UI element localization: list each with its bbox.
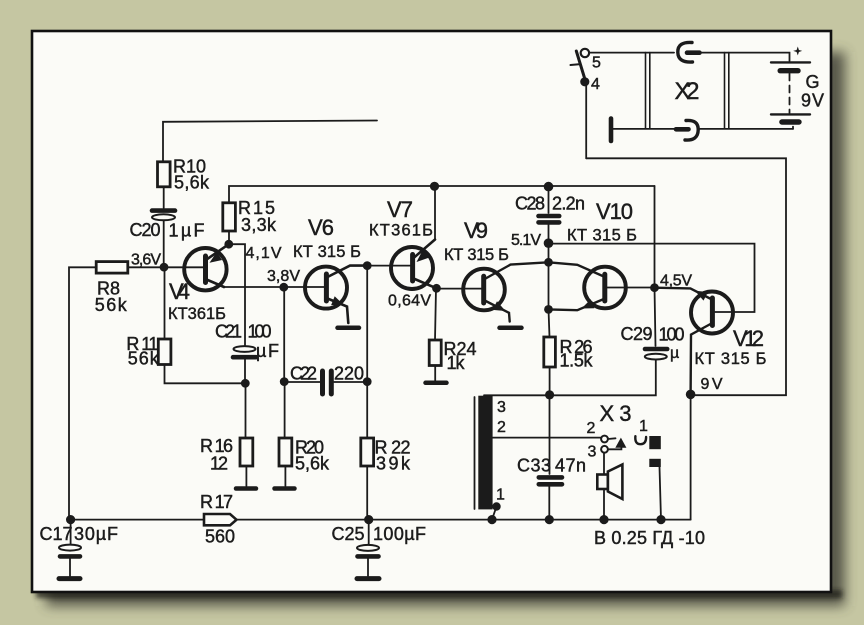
- wire node to R26: [549, 309, 550, 337]
- battery G cell 2 short plate: [782, 119, 799, 124]
- label R8: [95, 279, 128, 316]
- label R10: [173, 157, 210, 193]
- svg-text:56k: 56k: [95, 295, 128, 315]
- svg-text:4,5V: 4,5V: [660, 273, 692, 290]
- label C17: [40, 524, 119, 544]
- wire input from left edge: [69, 267, 96, 519]
- node rail V7: [430, 182, 439, 191]
- svg-text:V7: V7: [387, 197, 413, 222]
- wire X2 bottom link: [613, 128, 793, 130]
- X3 fixed contact hook: [635, 436, 646, 444]
- label switch pin4: [591, 76, 600, 93]
- svg-text:В 0.25 ГД -10: В 0.25 ГД -10: [594, 528, 705, 548]
- wire plug to bus: [660, 467, 662, 520]
- svg-text:G: G: [806, 72, 820, 92]
- wire C20 to node: [163, 220, 165, 267]
- label R20: [295, 438, 330, 474]
- svg-text:C22: C22: [290, 364, 317, 384]
- svg-text:5,6k: 5,6k: [295, 454, 330, 474]
- svg-text:V10: V10: [596, 199, 633, 224]
- speaker B: [597, 465, 622, 500]
- label G 9V: [801, 72, 824, 111]
- label speaker B: [594, 528, 705, 548]
- resistor R24: [429, 340, 441, 366]
- label X3: [600, 401, 632, 426]
- capacitor C28: [539, 216, 560, 222]
- svg-text:3,8V: 3,8V: [267, 268, 300, 285]
- wire R26 to 395 node: [549, 367, 551, 395]
- X3 pin 3 contact: [601, 446, 608, 453]
- resistor R15: [223, 203, 236, 231]
- label switch pin5: [592, 55, 601, 72]
- label R17: [200, 492, 235, 547]
- label V10: [567, 199, 637, 245]
- ground R24: [426, 381, 447, 386]
- wire R15 column: [228, 231, 230, 244]
- battery G cell 1 long plate: [771, 61, 810, 63]
- capacitor C29: [645, 349, 667, 360]
- label C33: [517, 456, 586, 476]
- node 4.5V: [650, 283, 659, 292]
- label C21: [215, 322, 279, 362]
- X3 movable contact triangle: [615, 438, 626, 448]
- label transformer pin2: [497, 419, 506, 436]
- ground bus: [71, 519, 691, 521]
- X2 connector pins left pair: [646, 53, 650, 129]
- transistor V7: [391, 240, 437, 290]
- wire contact5 to battery plus: [589, 53, 789, 61]
- wire 4.5V node to V12 emitter: [655, 288, 711, 299]
- wire V6 collector node down to C22 right node: [366, 266, 368, 382]
- label X2: [675, 78, 700, 105]
- svg-text:220: 220: [334, 364, 364, 384]
- svg-text:КТ 315 Б: КТ 315 Б: [444, 246, 509, 264]
- ground V9: [500, 326, 522, 331]
- svg-text:1µF: 1µF: [169, 221, 205, 241]
- svg-text:X 2: X 2: [675, 78, 700, 105]
- switch S lever: [571, 51, 586, 80]
- wire pin3 to movable contact: [608, 448, 621, 450]
- node V10 emitter: [544, 305, 553, 314]
- svg-text:12: 12: [210, 454, 228, 474]
- svg-text:1: 1: [496, 487, 505, 504]
- svg-text:2: 2: [497, 419, 506, 436]
- capacitor C33: [539, 477, 562, 484]
- wire tap1 to bus: [492, 507, 497, 520]
- node V7 collector: [432, 284, 441, 293]
- svg-text:µF: µF: [256, 341, 279, 361]
- transistor V9: [463, 262, 548, 321]
- wire C28 to 5.1V node: [548, 225, 550, 244]
- svg-text:4,1V: 4,1V: [246, 245, 282, 262]
- svg-text:56k: 56k: [128, 349, 160, 369]
- ground V6: [338, 326, 360, 331]
- wire R24 to ground: [434, 366, 436, 381]
- svg-text:9V: 9V: [801, 91, 824, 111]
- node V4 collector / R15: [224, 240, 233, 249]
- wire C28 rail tap: [548, 186, 550, 213]
- X2 top socket hook: [678, 42, 700, 62]
- node bus transformer: [487, 515, 496, 524]
- wire R11 bottom to C21 node: [165, 365, 246, 384]
- label V6: [293, 215, 361, 261]
- svg-text:КТ 315 Б: КТ 315 Б: [567, 227, 637, 245]
- label 9V: [701, 376, 723, 393]
- capacitor C17: [59, 520, 81, 579]
- wire R26 node down to C33: [549, 395, 551, 474]
- wire R8 to V4 base: [128, 266, 203, 268]
- svg-text:R 17: R 17: [200, 492, 233, 512]
- wire 5.1V to V12 base: [549, 244, 755, 312]
- node 395 rail R26: [545, 390, 554, 399]
- resistor R16: [240, 438, 253, 466]
- svg-text:C29: C29: [621, 324, 653, 344]
- wire 9V node to battery riser: [586, 158, 786, 395]
- label 0.64V: [388, 293, 431, 310]
- svg-text:C28: C28: [515, 194, 545, 214]
- node bus speaker: [599, 515, 608, 524]
- svg-text:C25: C25: [332, 524, 365, 544]
- node 9V: [686, 390, 696, 400]
- wire C22 left node to R20: [284, 382, 286, 438]
- svg-text:5: 5: [592, 55, 601, 72]
- svg-text:КТ 315 Б: КТ 315 Б: [293, 243, 361, 261]
- label C28: [515, 194, 585, 214]
- label 5.1V: [511, 232, 541, 249]
- svg-text:1: 1: [639, 418, 648, 435]
- node 5.1V: [544, 238, 554, 248]
- resistor R26: [544, 337, 556, 367]
- wire C29 to 395 rail: [484, 360, 656, 396]
- switch S contact 4: [580, 77, 589, 86]
- capacitor C25: [357, 520, 379, 579]
- svg-text:100: 100: [248, 322, 272, 342]
- node V9-V10 collector: [544, 258, 553, 267]
- wire V7 collector to V9 base: [437, 288, 483, 290]
- wire contact4 down: [585, 86, 587, 159]
- capacitor C22: [284, 371, 367, 394]
- label R16: [200, 436, 233, 474]
- wire R20 to ground: [284, 466, 286, 486]
- svg-text:3: 3: [588, 444, 597, 461]
- node bus C25: [364, 515, 373, 524]
- transformer T core: [474, 397, 476, 509]
- resistor R22: [361, 438, 374, 466]
- node V4-V6 wire: [279, 283, 288, 292]
- wire 9V node down to bus: [690, 394, 692, 519]
- wire top-left feedback: [163, 121, 377, 163]
- resistor R10: [158, 162, 171, 187]
- node C22 left: [280, 377, 289, 386]
- transistor V4: [184, 244, 229, 290]
- svg-text:560: 560: [205, 527, 235, 547]
- svg-text:µ: µ: [670, 345, 679, 362]
- wire V4 emitter to V6 base: [224, 286, 325, 288]
- X3 plug symbol: [649, 436, 661, 467]
- battery G cell 1 short plate: [780, 68, 798, 73]
- svg-text:47n: 47n: [555, 456, 586, 476]
- svg-text:4: 4: [591, 76, 600, 93]
- svg-text:1.5k: 1.5k: [560, 351, 594, 371]
- svg-text:КТ 315 Б: КТ 315 Б: [695, 350, 767, 368]
- svg-text:39k: 39k: [376, 454, 411, 474]
- label 3.6V: [131, 252, 161, 269]
- capacitor C21: [233, 346, 256, 357]
- wire node to C21 column: [229, 244, 245, 346]
- svg-text:5,6k: 5,6k: [174, 173, 210, 193]
- battery G dashed link: [789, 74, 791, 114]
- svg-text:C17: C17: [40, 524, 73, 544]
- wire node down to C22 left node: [283, 287, 285, 381]
- X2 bottom-left pin bar: [609, 119, 614, 142]
- node rail C28: [544, 182, 554, 192]
- battery G cell 2 long plate: [771, 113, 810, 115]
- label X3 pin2: [587, 420, 596, 437]
- wire battery minus down: [792, 127, 794, 129]
- node 3.6V: [160, 263, 169, 272]
- wire V6 node to V7 base: [367, 265, 410, 267]
- wire C22 right node to R22: [366, 382, 368, 438]
- node V6 collector: [363, 261, 372, 270]
- label C25: [332, 524, 427, 544]
- label R22: [375, 438, 412, 474]
- node bus C33: [545, 515, 554, 524]
- wire C21 to node: [244, 358, 246, 384]
- wire V7 emitter up to rail: [434, 186, 436, 240]
- label C29: [621, 324, 685, 362]
- wire C33 to bus: [548, 487, 550, 520]
- svg-text:5.1V: 5.1V: [511, 232, 541, 249]
- svg-text:V4: V4: [169, 279, 190, 304]
- label transformer pin3: [497, 399, 506, 416]
- svg-text:КТ361Б: КТ361Б: [168, 305, 226, 323]
- node bus plug: [656, 515, 665, 524]
- node C22 right: [363, 377, 372, 386]
- transistor V12 (mirrored): [691, 291, 733, 394]
- svg-text:C21: C21: [215, 322, 242, 342]
- svg-text:100µF: 100µF: [373, 524, 426, 544]
- transformer T winding: [478, 396, 492, 510]
- ground R20: [275, 486, 295, 491]
- label 4.1V: [246, 245, 282, 262]
- svg-text:V6: V6: [308, 215, 334, 240]
- svg-text:2.2n: 2.2n: [552, 194, 585, 214]
- wire node to R16: [245, 383, 247, 438]
- svg-text:2: 2: [587, 420, 596, 437]
- transistor V10 (mirrored): [549, 262, 655, 310]
- wire pin2 to triangle: [608, 437, 616, 440]
- wire R10 to C20: [163, 187, 165, 208]
- X2 connector pins right pair: [725, 53, 729, 129]
- wire V7 node down to R24: [435, 288, 436, 340]
- svg-text:C33: C33: [517, 456, 551, 476]
- label 3.8V: [267, 268, 300, 285]
- label 4.5V: [660, 273, 692, 290]
- label V4: [168, 279, 226, 323]
- label V12: [695, 326, 767, 368]
- svg-text:1k: 1k: [447, 353, 466, 373]
- resistor R11: [158, 339, 171, 365]
- svg-text:0,64V: 0,64V: [388, 293, 431, 310]
- node transformer tap 1: [492, 502, 500, 510]
- svg-text:3,6V: 3,6V: [131, 252, 161, 269]
- label R15: [238, 198, 277, 235]
- resistor R17: [204, 514, 237, 525]
- wire pin3 down to speaker: [603, 453, 605, 520]
- label R24: [444, 339, 477, 373]
- label X3 pin3: [588, 444, 597, 461]
- wire rail corner down through 4.5V node to C29: [655, 186, 656, 346]
- svg-text:30µF: 30µF: [74, 524, 118, 544]
- wire node down: [548, 262, 550, 309]
- svg-text:3,3k: 3,3k: [241, 215, 277, 235]
- transistor V6: [305, 266, 367, 323]
- svg-text:3: 3: [497, 399, 506, 416]
- capacitor C20: [152, 211, 175, 221]
- label X3 pin1: [639, 418, 648, 435]
- wire R16 to ground: [245, 466, 247, 486]
- node C21: [241, 379, 250, 388]
- svg-text:КТ361Б: КТ361Б: [369, 222, 433, 240]
- ground R16: [236, 486, 256, 491]
- resistor R20: [279, 438, 292, 466]
- wire R15 top to rail: [229, 186, 655, 203]
- svg-text:V9: V9: [464, 218, 488, 243]
- wire node to R11: [164, 267, 166, 339]
- X3 pin 2 contact: [601, 436, 608, 443]
- resistor R8: [96, 262, 128, 274]
- label V9: [444, 218, 509, 264]
- switch S contact 5: [581, 49, 589, 57]
- label R26: [560, 337, 594, 371]
- X2 bottom socket hook: [676, 120, 698, 140]
- svg-text:C20: C20: [130, 220, 161, 240]
- label C22: [290, 364, 364, 384]
- label R11: [126, 334, 159, 369]
- svg-text:100: 100: [659, 325, 685, 345]
- wire transformer tap2 to X3 pin2: [493, 437, 601, 439]
- battery plus mark: [793, 47, 802, 56]
- svg-text:9V: 9V: [701, 376, 723, 393]
- wire R22 to bus: [366, 466, 368, 520]
- wire 5.1V node down: [548, 243, 550, 262]
- svg-text:V 12: V 12: [733, 326, 764, 351]
- node bus C17: [66, 515, 75, 524]
- label V7: [369, 197, 433, 240]
- label C20 value: [130, 220, 205, 241]
- label transformer pin1: [496, 487, 505, 504]
